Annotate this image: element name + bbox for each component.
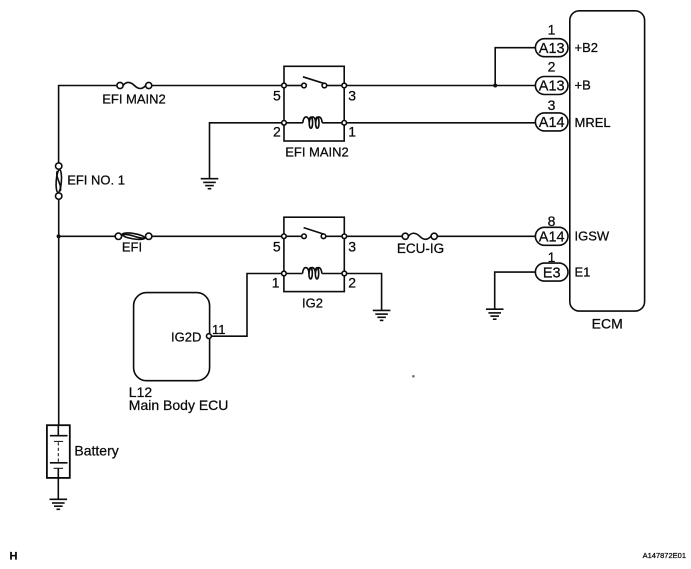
svg-text:IG2: IG2 — [302, 296, 323, 311]
relay IG2 switch contacts — [286, 234, 342, 239]
svg-text:11: 11 — [212, 322, 226, 337]
wire IG2 pin 2 to ground — [347, 274, 382, 311]
svg-text:8: 8 — [548, 213, 556, 229]
left vertical wire lower segment to battery — [57, 199, 60, 425]
wire fuse ECU-IG to ECM IGSW — [437, 235, 535, 237]
wire EFI row from junction to fuse EFI — [59, 235, 116, 237]
relay IG2 box — [284, 217, 344, 291]
connector A13 pin 1 (+B2) — [535, 39, 568, 57]
svg-text:ECU-IG: ECU-IG — [397, 241, 444, 256]
svg-text:3: 3 — [348, 87, 356, 103]
ground (battery) — [50, 499, 68, 509]
svg-text:Battery: Battery — [74, 443, 118, 459]
battery internal cell symbol — [50, 425, 68, 478]
svg-text:EFI: EFI — [122, 240, 142, 255]
svg-text:5: 5 — [273, 239, 281, 255]
terminal 11 circle (IG2D) — [207, 334, 212, 339]
wire relay pin 1 to ECM MREL — [347, 122, 536, 124]
wire battery negative to ground — [57, 478, 59, 499]
connector A14 pin 3 (MREL) — [535, 113, 568, 131]
ground (EFI MAIN2 relay coil) — [201, 179, 219, 189]
svg-text:IG2D: IG2D — [171, 329, 201, 344]
svg-text:1: 1 — [348, 124, 356, 140]
svg-text:1: 1 — [548, 249, 556, 265]
svg-text:E3: E3 — [543, 265, 561, 281]
ground (IG2 relay coil) — [373, 310, 391, 320]
scan artifact dot — [412, 375, 415, 378]
fuse ECU-IG — [402, 233, 437, 239]
wire IG2 pin 1 to Main Body ECU IG2D — [211, 274, 281, 337]
svg-text:2: 2 — [548, 59, 556, 75]
svg-text:EFI MAIN2: EFI MAIN2 — [102, 92, 166, 107]
relay IG2 switch blade — [304, 228, 325, 235]
svg-text:H: H — [10, 551, 18, 563]
wire from fuse EFI to relay IG2 pin 5 — [152, 235, 282, 237]
svg-text:EFI NO. 1: EFI NO. 1 — [67, 172, 125, 187]
svg-text:2: 2 — [273, 124, 281, 140]
wire IG2 pin 3 to fuse ECU-IG — [347, 235, 403, 237]
svg-text:A13: A13 — [539, 41, 565, 57]
svg-text:+B2: +B2 — [575, 40, 599, 55]
svg-text:3: 3 — [548, 97, 556, 113]
relay EFI MAIN2 box — [284, 66, 344, 141]
connector A14 pin 8 (IGSW) — [535, 227, 568, 245]
relay EFI MAIN2 switch blade — [303, 77, 325, 84]
svg-text:MREL: MREL — [575, 115, 611, 130]
wire relay pin 2 to ground — [210, 123, 282, 179]
svg-text:Main Body ECU: Main Body ECU — [129, 397, 229, 413]
wire E3 to ground — [495, 272, 536, 309]
svg-text:IGSW: IGSW — [575, 229, 610, 244]
connector A13 pin 2 (+B) — [535, 77, 568, 95]
wire top row from left vertical to fusible link — [59, 86, 117, 163]
battery box — [47, 425, 70, 478]
fuse EFI NO. 1 — [55, 163, 62, 199]
svg-text:1: 1 — [548, 21, 556, 37]
svg-text:A14: A14 — [539, 230, 565, 246]
wire relay pin 3 to ECM +B — [347, 85, 536, 87]
ECM box — [570, 11, 645, 311]
svg-text:+B: +B — [575, 78, 591, 93]
ground (E1) — [486, 309, 504, 319]
svg-text:EFI MAIN2: EFI MAIN2 — [285, 144, 349, 159]
svg-text:A147872E01: A147872E01 — [643, 551, 686, 560]
relay EFI MAIN2 pins (terminals) — [282, 83, 347, 125]
fusible link EFI MAIN2 — [117, 82, 152, 88]
connector E3 pin 1 (E1) — [535, 263, 568, 281]
svg-text:1: 1 — [272, 274, 280, 290]
svg-text:A14: A14 — [539, 115, 565, 131]
wire branch to +B2 — [495, 48, 535, 86]
svg-text:A13: A13 — [539, 79, 565, 95]
fuse EFI — [115, 232, 152, 241]
Main Body ECU box L12 — [134, 293, 210, 381]
svg-text:5: 5 — [273, 87, 281, 103]
relay EFI MAIN2 switch contacts — [286, 83, 342, 88]
svg-text:3: 3 — [348, 239, 356, 255]
junction dot +B2 branch — [493, 84, 497, 88]
svg-text:2: 2 — [348, 274, 356, 290]
svg-text:ECM: ECM — [592, 315, 623, 331]
relay EFI MAIN2 coil — [286, 117, 342, 128]
svg-text:E1: E1 — [575, 265, 591, 280]
relay IG2 coil — [286, 268, 342, 279]
wire from link to relay pin 5 — [152, 85, 282, 87]
relay IG2 pins (terminals) — [282, 234, 347, 276]
junction dot left vertical / EFI row — [57, 234, 61, 238]
